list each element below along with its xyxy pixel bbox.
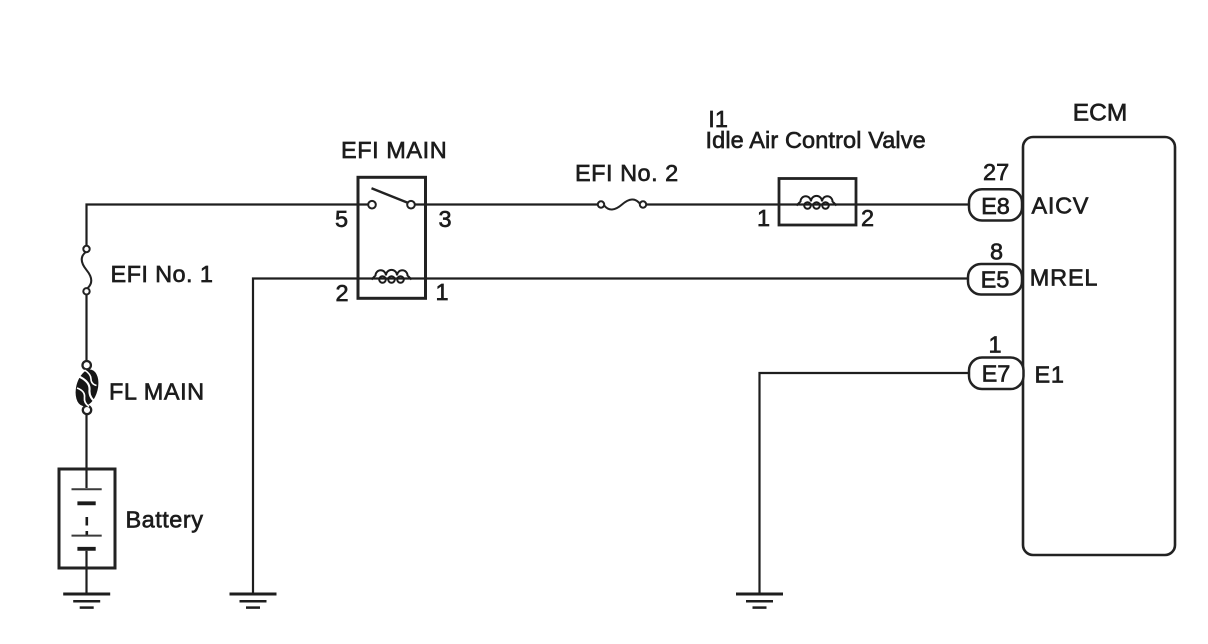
svg-text:FL MAIN: FL MAIN bbox=[109, 379, 205, 405]
svg-text:2: 2 bbox=[336, 280, 349, 306]
svg-text:1: 1 bbox=[757, 205, 770, 231]
svg-text:1: 1 bbox=[436, 279, 449, 305]
svg-text:Idle Air Control Valve: Idle Air Control Valve bbox=[706, 127, 926, 153]
svg-text:AICV: AICV bbox=[1032, 193, 1090, 219]
svg-text:8: 8 bbox=[990, 239, 1003, 265]
svg-text:E1: E1 bbox=[1035, 362, 1065, 388]
svg-text:EFI No. 1: EFI No. 1 bbox=[111, 261, 214, 287]
svg-text:EFI No. 2: EFI No. 2 bbox=[575, 160, 679, 186]
svg-text:EFI MAIN: EFI MAIN bbox=[341, 137, 447, 163]
svg-text:E5: E5 bbox=[981, 267, 1010, 293]
svg-text:27: 27 bbox=[983, 159, 1009, 185]
svg-text:5: 5 bbox=[335, 206, 348, 232]
svg-text:E8: E8 bbox=[981, 193, 1010, 219]
svg-text:Battery: Battery bbox=[126, 507, 204, 533]
svg-text:3: 3 bbox=[439, 206, 452, 232]
svg-text:E7: E7 bbox=[982, 361, 1011, 387]
svg-text:1: 1 bbox=[989, 332, 1002, 358]
svg-text:MREL: MREL bbox=[1030, 265, 1099, 291]
svg-text:2: 2 bbox=[861, 205, 874, 231]
svg-text:ECM: ECM bbox=[1073, 99, 1127, 126]
